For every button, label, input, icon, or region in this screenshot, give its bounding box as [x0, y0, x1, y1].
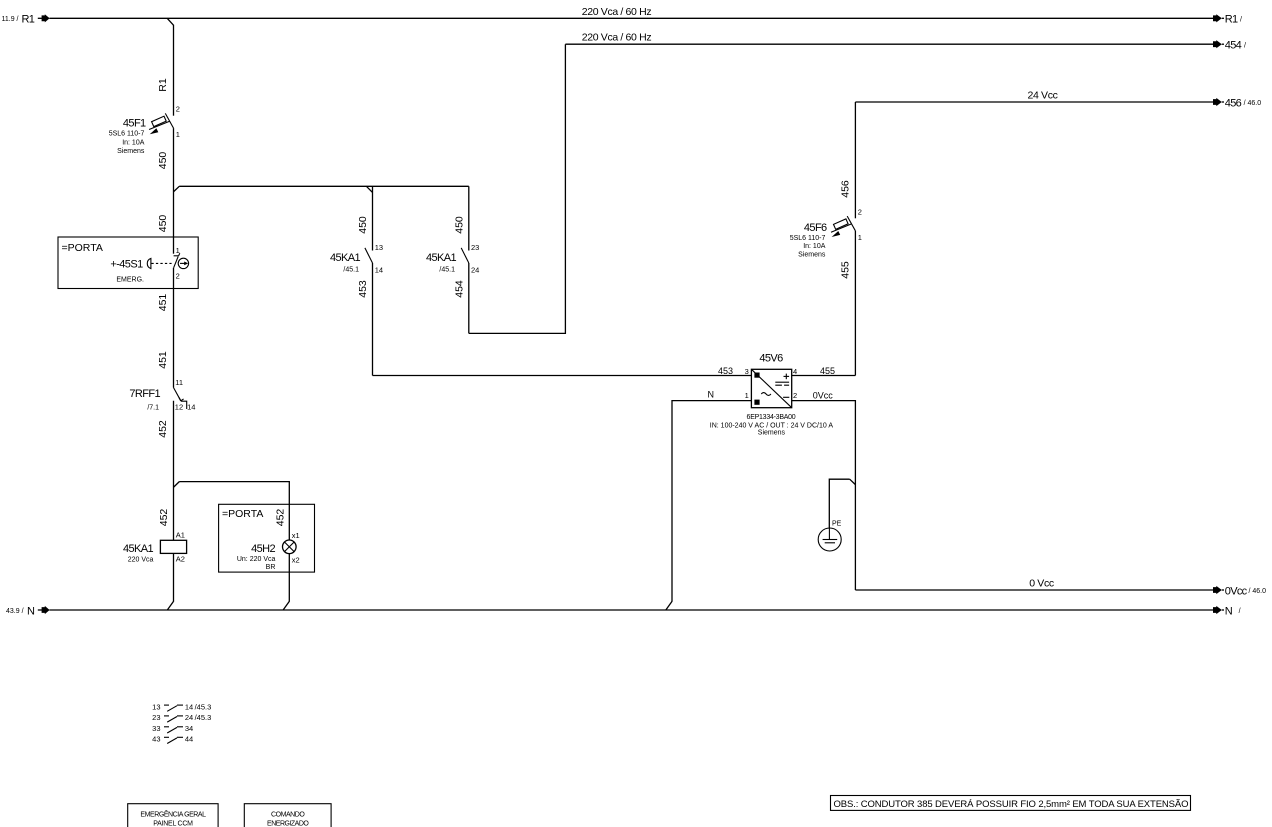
svg-text:/: /: [1239, 608, 1241, 615]
svg-text:14: 14: [375, 266, 383, 275]
svg-text:45KA1: 45KA1: [123, 543, 154, 555]
ground PE: [818, 521, 841, 551]
svg-text:450: 450: [157, 152, 169, 170]
svg-text:1: 1: [176, 130, 180, 139]
wire 454 horizontal to riser: [469, 44, 566, 333]
svg-text:R1: R1: [22, 14, 35, 26]
svg-text:45F6: 45F6: [804, 222, 827, 234]
svg-text:/45.1: /45.1: [439, 267, 455, 274]
svg-text:24: 24: [471, 266, 479, 275]
circuit breaker 45F6: [790, 207, 862, 258]
svg-text:452: 452: [158, 509, 170, 527]
contact cross-reference table 45KA1: [152, 702, 211, 743]
svg-text:OBS.: CONDUTOR 385 DEVERÁ POSS: OBS.: CONDUTOR 385 DEVERÁ POSSUIR FIO 2,…: [834, 799, 1189, 810]
svg-text:R1: R1: [157, 78, 169, 92]
svg-text:454: 454: [1225, 40, 1242, 52]
svg-text:45KA1: 45KA1: [426, 252, 457, 264]
junction bus R1 to wire R1: [167, 18, 173, 25]
svg-text:453: 453: [357, 280, 369, 298]
svg-text:451: 451: [157, 351, 169, 369]
node 456 target right: [1213, 97, 1261, 109]
svg-text:452: 452: [274, 509, 286, 527]
svg-text:ENERGIZADO: ENERGIZADO: [267, 821, 309, 827]
svg-text:x1: x1: [292, 531, 300, 540]
svg-text:A1: A1: [176, 531, 185, 540]
svg-text:452: 452: [157, 420, 169, 438]
svg-text:456: 456: [1225, 97, 1242, 109]
svg-text:11.9 /: 11.9 /: [2, 16, 19, 23]
junction lamp wire to N bus: [283, 602, 289, 610]
svg-text:23: 23: [152, 713, 160, 722]
svg-text:23: 23: [471, 243, 479, 252]
junction wire to N bus: [168, 602, 174, 610]
changeover contact 7RFF1: [129, 378, 195, 411]
svg-text:R1: R1: [1225, 14, 1238, 26]
svg-text:/45.3: /45.3: [195, 702, 212, 711]
svg-text:44: 44: [185, 735, 193, 744]
svg-text:13: 13: [375, 243, 383, 252]
wire 0Vcc bus: [855, 577, 1213, 590]
svg-text:PE: PE: [832, 521, 842, 528]
wire 452 horizontal branch: [179, 482, 289, 540]
wire 450 drop second contact: [453, 186, 469, 250]
svg-text:Siemens: Siemens: [798, 252, 826, 259]
svg-text:7RFF1: 7RFF1: [129, 388, 160, 400]
svg-text:x2: x2: [292, 556, 300, 565]
junction N drop to N bus: [666, 602, 672, 610]
emergency stop switch 45S1: [110, 246, 188, 283]
svg-text:0 Vcc: 0 Vcc: [1029, 577, 1054, 589]
node R1 source left: [2, 14, 50, 26]
svg-text:454: 454: [453, 280, 465, 298]
node N target right: [1213, 605, 1241, 617]
svg-text:/ 46.0: / 46.0: [1244, 100, 1262, 107]
svg-text:0Vcc: 0Vcc: [1225, 585, 1248, 597]
wire x2 to N: [288, 554, 290, 602]
svg-text:5SL6 110-7: 5SL6 110-7: [790, 235, 826, 242]
svg-text:/7.1: /7.1: [147, 404, 159, 411]
svg-text:=PORTA: =PORTA: [222, 508, 263, 520]
legend box emergencia geral: [128, 804, 218, 827]
svg-text:/ 46.0: / 46.0: [1249, 588, 1267, 595]
node 0Vcc target right: [1213, 585, 1266, 597]
svg-text:In: 10A: In: 10A: [122, 139, 145, 146]
junction wire452 to lamp branch: [173, 482, 179, 488]
svg-text:COMANDO: COMANDO: [271, 812, 305, 819]
wire 450 horizontal branch: [179, 185, 469, 187]
=PORTA box S1: [58, 237, 198, 289]
svg-text:3: 3: [745, 367, 749, 376]
junction h186 to wire 450.2: [366, 186, 372, 192]
svg-text:450: 450: [157, 215, 169, 233]
svg-text:In: 10A: In: 10A: [803, 243, 826, 250]
svg-text:220 Vca: 220 Vca: [128, 557, 154, 564]
=PORTA box H2: [219, 504, 315, 572]
svg-text:14: 14: [185, 702, 193, 711]
svg-text:/: /: [1244, 42, 1246, 49]
svg-text:0Vcc: 0Vcc: [813, 391, 834, 401]
wire 456: [839, 102, 855, 218]
svg-text:6EP1334-3BA00: 6EP1334-3BA00: [747, 414, 796, 421]
svg-text:13: 13: [152, 702, 160, 711]
svg-text:4: 4: [793, 367, 797, 376]
wire 450: [157, 128, 174, 254]
svg-text:450: 450: [357, 216, 369, 234]
svg-text:+-45S1: +-45S1: [110, 258, 143, 270]
svg-text:2: 2: [176, 272, 180, 281]
circuit breaker 45F1: [109, 104, 180, 155]
svg-text:EMERGÊNCIA GERAL: EMERGÊNCIA GERAL: [140, 810, 206, 819]
svg-text:45F1: 45F1: [123, 117, 146, 129]
NO contact 45KA1 23-24: [426, 243, 479, 275]
svg-text:45KA1: 45KA1: [330, 252, 361, 264]
node N source left: [6, 605, 50, 617]
svg-text:PAINEL CCM: PAINEL CCM: [153, 821, 193, 827]
wire N bus: [49, 609, 1213, 611]
wire 452: [157, 401, 174, 541]
svg-text:Un: 220 Vca: Un: 220 Vca: [237, 556, 276, 563]
svg-text:24: 24: [185, 713, 193, 722]
junction wire450 to branch h186: [173, 186, 179, 192]
svg-text:IN: 100-240 V AC / OUT : 24 V: IN: 100-240 V AC / OUT : 24 V DC/10 A: [710, 422, 834, 429]
svg-text:Siemens: Siemens: [117, 148, 145, 155]
note OBS box: [831, 796, 1191, 811]
wire 453 horizontal: [373, 375, 752, 377]
svg-text:2: 2: [176, 104, 180, 113]
svg-text:N: N: [27, 605, 35, 617]
svg-text:BR: BR: [266, 564, 276, 571]
svg-text:/45.1: /45.1: [343, 267, 359, 274]
svg-text:14: 14: [187, 402, 195, 411]
svg-text:24 Vcc: 24 Vcc: [1028, 89, 1058, 101]
wire 0Vcc from pin2: [792, 401, 856, 590]
svg-text:12: 12: [175, 402, 183, 411]
wire 24Vcc bus: [855, 89, 1213, 102]
svg-text:43.9 /: 43.9 /: [6, 608, 24, 615]
relay coil 45KA1: [123, 531, 187, 564]
junction 0Vcc riser to PE branch: [850, 479, 856, 484]
svg-text:45V6: 45V6: [759, 353, 783, 365]
svg-text:A2: A2: [176, 555, 185, 564]
svg-text:/45.3: /45.3: [195, 713, 212, 722]
svg-text:EMERG.: EMERG.: [116, 276, 144, 283]
svg-text:456: 456: [839, 180, 851, 198]
svg-text:2: 2: [793, 391, 797, 400]
wire R1 vertical: [157, 25, 174, 116]
node R1 target right: [1213, 14, 1242, 26]
svg-text:1: 1: [745, 391, 749, 400]
wire 452 to N: [173, 553, 175, 601]
wire 455 riser vertical: [839, 231, 855, 376]
NO contact 45KA1 13-14: [330, 243, 383, 275]
svg-text:=PORTA: =PORTA: [62, 242, 103, 254]
svg-text:220 Vca / 60 Hz: 220 Vca / 60 Hz: [582, 32, 652, 44]
wire 454 vertical: [453, 263, 469, 333]
power supply 45V6: [708, 353, 836, 437]
svg-text:1: 1: [858, 233, 862, 242]
lamp 45H2: [237, 509, 300, 571]
svg-text:45H2: 45H2: [251, 543, 275, 555]
svg-text:2: 2: [858, 207, 862, 216]
wire R1 bus 220Vca: [49, 6, 1213, 18]
svg-text:455: 455: [839, 261, 851, 279]
svg-text:5SL6 110-7: 5SL6 110-7: [109, 131, 145, 138]
svg-text:220 Vca / 60 Hz: 220 Vca / 60 Hz: [582, 6, 652, 18]
wire 453 vertical: [357, 263, 373, 376]
wire 455 pin4 to riser: [792, 375, 856, 377]
svg-text:34: 34: [185, 724, 193, 733]
node 454 target right: [1213, 40, 1246, 52]
svg-text:N: N: [708, 390, 715, 400]
svg-text:/: /: [1240, 16, 1242, 23]
wire PE branch: [829, 479, 849, 528]
svg-text:453: 453: [718, 366, 733, 376]
wire 450 drop first contact: [357, 186, 373, 250]
wire 454 bus 220Vca: [565, 32, 1213, 45]
svg-text:Siemens: Siemens: [758, 430, 786, 437]
wire N from pin1: [672, 401, 751, 602]
svg-text:33: 33: [152, 724, 160, 733]
wire 451: [157, 268, 174, 388]
svg-text:11: 11: [175, 378, 183, 387]
svg-text:450: 450: [453, 216, 465, 234]
svg-text:455: 455: [820, 366, 835, 376]
legend box comando energizado: [244, 804, 331, 827]
svg-text:451: 451: [157, 294, 169, 312]
svg-text:43: 43: [152, 735, 160, 744]
svg-text:N: N: [1225, 605, 1233, 617]
